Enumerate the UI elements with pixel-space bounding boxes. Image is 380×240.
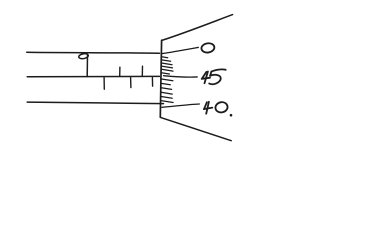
thimble scale tick 3 (162, 63, 173, 65)
sleeve datum line (27, 75, 159, 77)
zero-flag loop on main scale (78, 53, 88, 59)
thimble scale tick 8 (161, 83, 170, 84)
thimble scale tick 12 (161, 101, 173, 103)
label 40 period (230, 114, 233, 117)
thimble bottom diagonal (161, 117, 232, 140)
main-scale lower tick 2 (130, 78, 132, 88)
sleeve top outline (27, 51, 160, 54)
main-scale lower tick 3 (151, 78, 153, 87)
thimble scale tick 10 (161, 92, 172, 94)
pointer line to 45 (164, 76, 198, 77)
thimble scale tick 7 (161, 79, 173, 81)
label 45 digit 4 (202, 72, 210, 84)
thimble scale tick 5 (162, 69, 174, 71)
thimble scale tick 1 (162, 57, 168, 58)
main-scale upper tick 1 (119, 67, 121, 76)
pointer line to 40 (162, 104, 199, 107)
label 0 (201, 42, 215, 53)
thimble scale tick 11 (161, 97, 172, 99)
thimble scale tick 2 (162, 60, 171, 61)
thimble scale tick 6 (161, 73, 169, 74)
main-scale lower tick 1 (103, 78, 105, 90)
thimble edge (160, 40, 161, 117)
label 40 digit 0 (214, 101, 228, 114)
main-scale upper tick 2 (141, 66, 143, 76)
thimble scale tick 9 (161, 88, 171, 90)
label 40 digit 4 (204, 102, 213, 114)
pointer line to 0 (162, 47, 198, 53)
thimble top diagonal (162, 15, 233, 41)
sleeve bottom outline (27, 102, 163, 104)
zero-flag stem tick (86, 55, 88, 76)
label 45 digit 5 (209, 69, 226, 84)
thimble scale tick 4 (162, 66, 173, 68)
